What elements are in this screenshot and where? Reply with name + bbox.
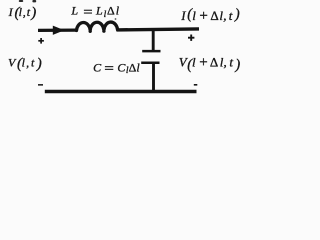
capacitor top plate [142, 50, 160, 53]
svg-text:I(l,t): I(l,t) [8, 5, 37, 21]
inductor L coil [77, 22, 118, 30]
wire top-left with arrow [38, 28, 77, 32]
plus sign left [38, 38, 44, 44]
arrowhead of current I(l,t) [53, 26, 65, 35]
label C = C_l Δl [105, 66, 113, 70]
scan dot [115, 18, 117, 20]
cropped text fragment top edge [19, 0, 36, 2]
minus sign right [194, 84, 198, 86]
wire top-right [117, 29, 200, 30]
coil junction blobs [89, 30, 92, 33]
capacitor stem top [152, 29, 155, 51]
plus sign right [188, 35, 194, 41]
svg-text:LLlΔl: LLlΔl [70, 4, 119, 20]
svg-text:V(l,t): V(l,t) [8, 56, 42, 72]
label L = L_l Δl [84, 10, 92, 14]
capacitor bottom plate [141, 62, 159, 65]
capacitor stem bottom [152, 64, 155, 92]
bottom wire [45, 90, 197, 94]
svg-text:I(l+Δl,t): I(l+Δl,t) [180, 7, 240, 24]
minus sign left [38, 84, 43, 86]
svg-text:CClΔl: CClΔl [93, 60, 140, 76]
